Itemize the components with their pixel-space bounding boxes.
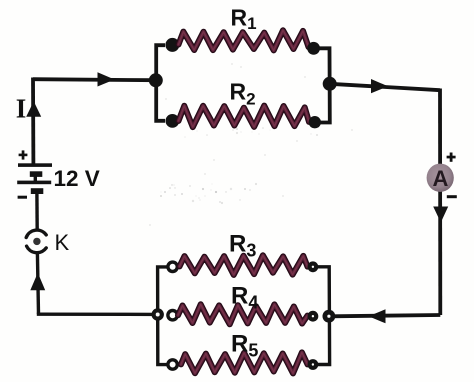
node: R4 right terminal (310, 313, 317, 320)
key K center dot (33, 238, 40, 245)
arrow: current direction on top wire (98, 72, 115, 86)
resistor R4 (178, 304, 308, 324)
wire: left vertical (corner down to battery + plate) (31, 78, 35, 164)
resistor R2 (179, 106, 310, 128)
node: junction on bottom left bus (152, 308, 164, 320)
resistor R3 (180, 255, 308, 275)
wire: right bus of R1/R2 with stubs (317, 48, 330, 122)
battery short plate 1 (30, 171, 43, 177)
wire: output to right side (to ammeter branch) (330, 84, 440, 90)
wire: top-left horizontal (battery+ to left node) (33, 79, 156, 80)
svg-text:12 V: 12 V (54, 166, 100, 191)
node: R1 right terminal (307, 42, 320, 55)
arrow: current upward toward K (30, 273, 45, 291)
node: junction on bottom right bus (323, 310, 336, 323)
node: R5 right terminal (310, 361, 317, 368)
node: R2 left terminal (166, 114, 180, 128)
battery long plate 2 (17, 181, 51, 185)
node: R3 left terminal (ring) (168, 262, 177, 271)
svg-text:I: I (16, 93, 27, 123)
svg-text:R3: R3 (229, 231, 256, 261)
battery + sign (19, 150, 28, 159)
wire: battery - down to key K (35, 194, 39, 232)
resistor R1 (179, 30, 309, 50)
svg-text:R4: R4 (231, 283, 258, 313)
wire: left bus of R1/R2 with stubs (156, 45, 165, 121)
battery - sign (18, 196, 27, 199)
key (plug key) K : open circle (two arcs) (26, 230, 46, 253)
battery short plate 2 (- terminal) (31, 188, 44, 194)
svg-text:A: A (433, 166, 449, 191)
ammeter A1 body (427, 164, 454, 192)
node: junction on right bus (output) (323, 77, 337, 91)
svg-text:R5: R5 (231, 331, 258, 361)
node: R4 left terminal (ring) (168, 311, 177, 320)
arrow: current direction toward ammeter (371, 79, 388, 93)
battery inter-cell stub (34, 177, 37, 182)
node: R1 left terminal (165, 38, 179, 52)
node: junction on left bus (input) (149, 73, 163, 87)
arrow: current downward below ammeter (433, 207, 448, 223)
wire: key K down to bottom-left corner (37, 253, 38, 314)
svg-text:R2: R2 (230, 79, 256, 109)
arrow: current direction toward bottom resistors (369, 309, 386, 323)
node: R3 right terminal (310, 264, 317, 271)
node: R2 right terminal (309, 116, 321, 128)
wire: bottom-left horizontal to R3R4R5 left bus (37, 313, 158, 317)
wire: right vertical through ammeter (438, 89, 442, 316)
arrow: current I upward on left wire (26, 101, 41, 117)
node: R5 left terminal (ring) (168, 360, 177, 369)
wire: bottom-right horizontal back to R3R4R5 bus (330, 315, 441, 316)
ammeter - sign (447, 195, 457, 198)
resistor R5 (181, 352, 308, 373)
ammeter + sign (447, 153, 456, 162)
wire: left bus of R3/R4/R5 with stubs (158, 267, 167, 365)
svg-text:R1: R1 (231, 5, 257, 34)
wire: right bus of R3/R4/R5 with stubs (318, 267, 330, 365)
svg-text:K: K (55, 230, 70, 255)
battery B1 12 V : + long plate (18, 163, 52, 167)
